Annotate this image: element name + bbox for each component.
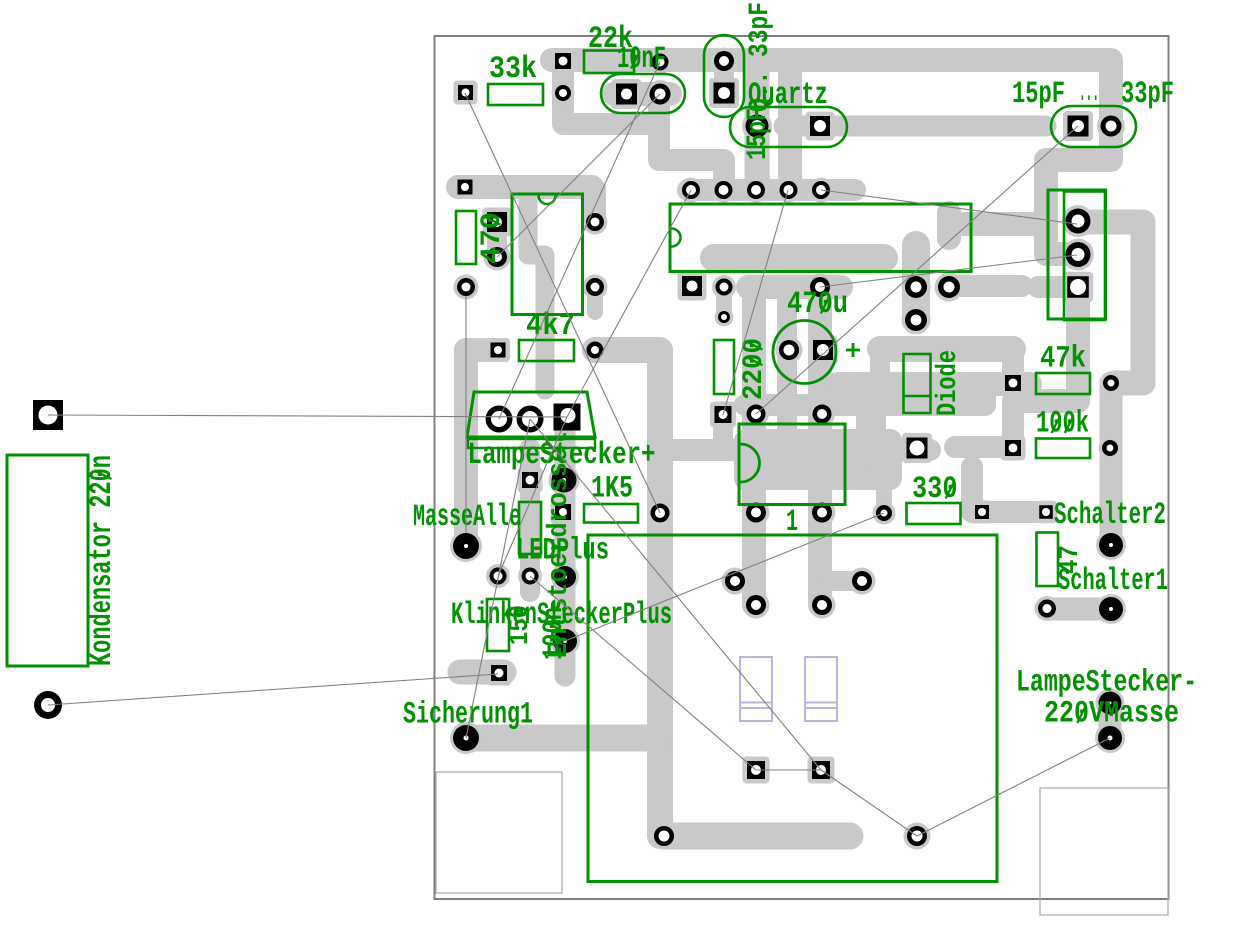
ratsnest r11 <box>756 769 821 771</box>
wire pin band right <box>949 275 1022 297</box>
pad 47k-r <box>1103 375 1119 391</box>
svg-text:33pF: 33pF <box>1121 77 1174 112</box>
pad quartzC-1 <box>714 51 734 71</box>
wire ic1 inner band <box>714 244 884 272</box>
ratsnest r16 <box>567 190 691 417</box>
pad ic1-b2 <box>716 279 733 296</box>
pad Kondensator-1 <box>33 400 63 430</box>
pad 330-l <box>876 505 892 521</box>
connector right <box>1048 190 1106 320</box>
optocoupler U3 <box>739 424 845 505</box>
wire relay col A <box>742 300 766 605</box>
wire opto fat area <box>734 429 902 490</box>
cutout notch right <box>1040 788 1168 915</box>
wire mid band <box>838 372 1030 396</box>
label dots <box>1079 75 1099 110</box>
wire ic1 pin stub <box>937 213 961 238</box>
wire conn drop <box>1016 289 1078 401</box>
label 47k <box>1040 342 1086 377</box>
pad 10nF-1 <box>616 84 637 105</box>
pad opto-1 <box>715 406 732 423</box>
ic U2 <box>512 194 583 315</box>
label 470 vert <box>477 212 508 264</box>
connector LampeStecker+ <box>467 392 595 448</box>
pad 4k7-r <box>587 342 604 359</box>
pad ic2-1 <box>487 212 507 232</box>
wire mid jog <box>870 349 890 384</box>
pad LampeStecker+2 <box>517 406 544 433</box>
pad 100k-l <box>1005 440 1021 456</box>
pad opto-3 <box>813 405 832 424</box>
svg-text:15pF: 15pF <box>1012 77 1065 112</box>
pad LampeStecker+1 <box>486 406 513 433</box>
label Q 33pF vert <box>745 2 776 112</box>
pad LED-2 <box>522 568 539 585</box>
label 4k7 <box>526 309 575 344</box>
resistor 4k7 <box>519 340 574 361</box>
label 47 vert <box>1055 545 1086 574</box>
plus mark 470u <box>846 343 860 357</box>
cutout notch left <box>436 772 562 893</box>
svg-text:MasseAlle: MasseAlle <box>413 500 521 535</box>
label 10nF <box>617 42 666 77</box>
pad quartzC-2 <box>714 83 735 104</box>
pad 33pFcap-2 <box>1101 116 1122 137</box>
wire opto feed <box>660 439 930 461</box>
pad 470u-minus <box>779 340 799 360</box>
pad ic1-b3 <box>810 277 830 297</box>
wire led col <box>520 448 540 592</box>
pad LEDPlus <box>552 468 577 493</box>
svg-text:470u: 470u <box>787 287 848 322</box>
wire 470u col A <box>777 290 797 455</box>
board outline <box>435 36 1169 899</box>
wire 47k band <box>880 336 1013 362</box>
label Quartz <box>748 78 828 113</box>
wire opto fat riser <box>856 405 886 455</box>
wire schalter1 bar <box>1047 598 1111 621</box>
pad Schalter1-r <box>1099 597 1123 621</box>
pad 220VMasse-b <box>1098 726 1122 750</box>
wire top rail <box>552 60 1111 254</box>
wire conn stub <box>1038 276 1076 298</box>
pad entstoer-0 <box>555 504 571 520</box>
pad klink-2 <box>491 665 507 681</box>
svg-text:Schalter2: Schalter2 <box>1054 498 1166 533</box>
pad 220v-2 <box>812 761 830 779</box>
ratsnest r12 <box>498 417 567 576</box>
pad opto-5 <box>812 503 832 523</box>
svg-text:10nF: 10nF <box>617 42 666 77</box>
pad ic1-b5 <box>938 276 960 298</box>
ratsnest r18 <box>723 190 788 415</box>
pad row-2 <box>715 181 733 199</box>
wire 22k stub <box>563 61 656 124</box>
wire schalter col <box>1100 383 1123 545</box>
pad 330-r <box>975 505 989 519</box>
ic U1 <box>670 204 971 272</box>
ratsnest r9 <box>821 770 917 836</box>
relay contact outline 2 <box>805 657 837 721</box>
ratsnest r5 <box>821 190 1077 224</box>
ratsnest r3 <box>48 415 567 417</box>
pad LampeStecker+3 <box>554 404 581 431</box>
pad ic1-b1 <box>682 276 702 296</box>
wire relay col B <box>808 295 832 605</box>
pad relay-3 <box>746 595 766 615</box>
svg-text:1K5: 1K5 <box>591 472 633 507</box>
svg-text:Q.. 33pF: Q.. 33pF <box>745 2 776 112</box>
label KlinkenSteckerPlus <box>451 598 672 633</box>
pad Schalter2 <box>1099 533 1123 557</box>
label LampeStecker- <box>1016 666 1197 701</box>
wire ic2 inner <box>528 199 545 390</box>
wire opto top band <box>745 384 985 405</box>
svg-text:47k: 47k <box>1040 342 1086 377</box>
wire ic1 pin band <box>949 212 1044 236</box>
ratsnest r7 <box>530 576 756 770</box>
pad entstoer-1 <box>554 566 576 588</box>
svg-text:...: ... <box>1079 75 1099 110</box>
pad Sicherung1 <box>453 725 479 751</box>
ratsnest r13 <box>466 419 530 738</box>
resistor 15k <box>487 599 509 651</box>
label Diode vert <box>933 350 964 416</box>
pad 470-t <box>458 180 473 195</box>
wire 470 link <box>487 222 507 257</box>
pad 4k7-l <box>491 343 506 358</box>
svg-text:33k: 33k <box>489 52 537 87</box>
wire ic2 pin drop <box>584 189 606 222</box>
svg-text:Kondensator 220n: Kondensator 220n <box>85 455 120 666</box>
pad conn-3 <box>1067 276 1089 298</box>
pad 22k-l <box>555 53 571 69</box>
label LampeStecker+ <box>468 438 656 473</box>
pad relay-1 <box>725 571 745 591</box>
wire left rail mid <box>458 175 592 199</box>
capacitor Kondensator 220n <box>7 455 88 666</box>
wire relay stub <box>833 571 860 591</box>
pad LED-1 <box>522 472 538 488</box>
ratsnest r2 <box>497 94 660 257</box>
resistor 100k <box>1036 439 1090 459</box>
via top <box>652 54 669 71</box>
wire pad row rail <box>688 179 855 201</box>
pad diode-b <box>907 438 928 459</box>
wire 470u band <box>748 275 841 299</box>
capacitor 470u <box>773 321 836 384</box>
pad diode-t <box>905 309 927 331</box>
pad 470u-plus <box>813 340 833 360</box>
ratsnest r4 <box>48 674 498 705</box>
pad ic2-2 <box>487 247 507 267</box>
capacitor quartz-load C <box>704 35 744 117</box>
wire ic2 stub <box>587 287 603 312</box>
pad conn-2 <box>1066 242 1091 267</box>
wire diode col <box>902 245 930 320</box>
resistor 33k <box>488 84 543 105</box>
wire 33pF col <box>778 62 802 189</box>
pad row-4 <box>780 181 798 199</box>
diode D1 <box>904 354 931 413</box>
wire 100k drop <box>1002 401 1024 444</box>
pad Schalter1-l <box>1038 600 1056 618</box>
label pin1 <box>786 505 798 540</box>
pad left mid <box>457 278 475 296</box>
ratsnest r1 <box>465 93 660 513</box>
label Kondensator 220n <box>85 455 120 666</box>
label Entstoerdrossel vert <box>544 432 575 658</box>
label Schalter1 <box>1058 564 1168 599</box>
wire entstoer col <box>555 420 576 676</box>
label 100n vert <box>539 607 570 660</box>
pad schalter2-l <box>1039 505 1053 519</box>
resistor 2200 <box>714 340 734 394</box>
svg-text:LampeStecker-: LampeStecker- <box>1016 666 1197 701</box>
resistor 1K5 <box>584 504 638 523</box>
pad MasseAlle <box>453 533 479 559</box>
svg-text:47: 47 <box>1055 545 1086 574</box>
wire 330 stub <box>876 492 892 510</box>
pad 15pFcap-2 <box>810 116 830 136</box>
wire bottom band <box>664 823 850 850</box>
wire lamp col <box>454 350 478 430</box>
resistor 47 <box>1037 533 1059 587</box>
label MasseAlle <box>413 500 521 535</box>
wire 47k drop <box>1002 349 1024 381</box>
label Schalter2 <box>1054 498 1166 533</box>
ratsnest r14 <box>465 296 467 533</box>
pad klink-1 <box>490 568 507 585</box>
pad opto-4 <box>746 503 766 523</box>
pad 100k-r <box>1102 440 1118 456</box>
label 2200 vert <box>739 338 770 400</box>
resistor 47k <box>1036 373 1090 394</box>
wire klinken band <box>460 660 504 685</box>
wire sicherung band <box>466 725 658 752</box>
pad 220v-4 <box>907 826 927 846</box>
wire 4k7 right <box>595 350 660 836</box>
pad ic2-r1 <box>586 213 604 231</box>
relay contact outline 1 <box>740 657 772 721</box>
pad Kondensator-2 <box>34 691 62 719</box>
svg-text:100k: 100k <box>1036 407 1089 442</box>
pad opto-2 <box>747 405 766 424</box>
pad 220v-3 <box>654 826 674 846</box>
wire 10nF down <box>659 94 724 189</box>
label 15pF <box>1012 77 1065 112</box>
label 33k <box>489 52 537 87</box>
pad 100n <box>553 629 577 653</box>
wire masse col <box>466 350 495 546</box>
pad 220v-1 <box>747 761 765 779</box>
pad 22k-r <box>555 85 571 101</box>
pad 15pFcap-1 <box>746 115 769 138</box>
pad copper halos <box>454 81 478 105</box>
pad 47k-l <box>1005 375 1021 391</box>
wire quartz stub <box>714 62 734 93</box>
ratsnest r19 <box>756 126 1078 414</box>
ratsnest r15 <box>565 513 884 641</box>
area 220V <box>588 535 997 882</box>
label 220VMasse <box>1044 697 1179 732</box>
label 150 vert <box>505 605 536 645</box>
ratsnest r17 <box>499 62 660 419</box>
wire quartz col <box>745 62 770 189</box>
pad relay-2 <box>852 571 872 591</box>
pad 33k-l <box>458 85 473 100</box>
capacitor 33pF C4 <box>1051 106 1136 147</box>
label 470u <box>787 287 848 322</box>
pad 220VMasse-a <box>1099 692 1122 715</box>
pad 33pFcap-1 <box>1068 116 1089 137</box>
label 33pF <box>1121 77 1174 112</box>
label 100k <box>1036 407 1089 442</box>
pad relay-4 <box>812 595 832 615</box>
wire opto pad stub <box>713 417 733 449</box>
via ic1 <box>718 311 730 323</box>
svg-text:2200: 2200 <box>739 338 770 400</box>
label 1K5 <box>591 472 633 507</box>
wire 15pF right <box>784 116 1046 137</box>
pad ic2-r2 <box>586 278 604 296</box>
pad row-5 <box>812 181 830 199</box>
ratsnest r8 <box>530 419 821 770</box>
wire 10nF pad strip <box>614 82 670 106</box>
label Sicherung1 <box>403 698 533 733</box>
label LEDPlus <box>516 534 609 569</box>
pad conn-1 <box>1066 209 1091 234</box>
pad 1K5-r <box>651 504 670 523</box>
wire ic1 small stub <box>716 287 732 317</box>
pad ic1-b4 <box>905 276 927 298</box>
pad row-3 <box>747 181 765 199</box>
svg-text:15pF: 15pF <box>743 108 774 160</box>
wire 100k feed <box>955 436 1008 458</box>
led LED1 <box>519 502 541 554</box>
pad 10nF-2 <box>650 84 671 105</box>
capacitor 10nF C3 <box>601 74 685 113</box>
label 22k <box>588 22 633 57</box>
resistor 330 <box>907 503 961 524</box>
wire masse stub <box>1099 700 1122 738</box>
svg-text:1: 1 <box>786 505 798 540</box>
svg-text:Diode: Diode <box>933 350 964 416</box>
label 330 <box>912 472 958 507</box>
pad row-1 <box>682 181 700 199</box>
wire conn right <box>1078 222 1143 383</box>
ratsnest r6 <box>820 255 1077 287</box>
ratsnest r10 <box>917 738 1110 836</box>
label 15pF vert <box>743 108 774 160</box>
resistor 22k <box>584 51 634 74</box>
resistor 470 <box>456 211 476 264</box>
svg-text:Entstoerdrossel: Entstoerdrossel <box>544 432 575 658</box>
svg-text:220VMasse: 220VMasse <box>1044 697 1179 732</box>
capacitor 15pF C2 <box>730 107 847 147</box>
wire schalter2 feed <box>972 467 1044 512</box>
